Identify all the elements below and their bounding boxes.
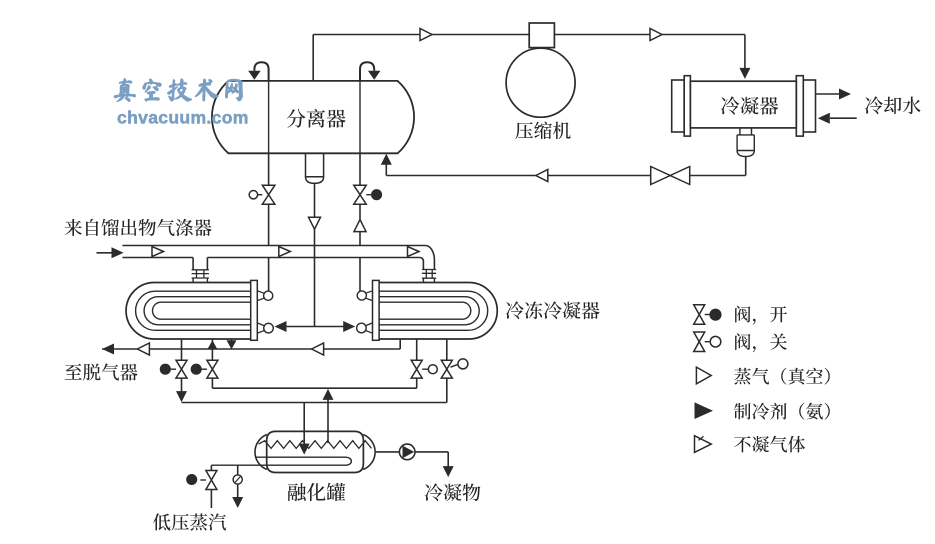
line B liquid header [182, 402, 447, 404]
valve left drop 2 [207, 360, 218, 378]
valve left under separator [262, 185, 275, 204]
feed inlet arrow [112, 247, 124, 258]
gooseneck left arrow into separator [248, 71, 261, 80]
steam riser upper [210, 465, 212, 470]
arrow into condenser top [739, 68, 750, 79]
condensate arrow down [443, 466, 454, 477]
right lower nozzle circle [357, 323, 367, 333]
arrow up into line C [323, 389, 334, 400]
valve stem [258, 194, 263, 196]
label melt tank [288, 483, 346, 501]
label condenser [721, 96, 778, 114]
left upper nozzle circle [264, 291, 273, 300]
gooseneck right arrow into separator [368, 71, 381, 80]
legend label noncondensable gas [734, 436, 805, 453]
valve stem [200, 479, 206, 481]
legend open circle [710, 336, 721, 347]
valve solid circle left 1 [161, 364, 171, 374]
label freezing condenser [506, 301, 600, 319]
feed drop left wall b2 [206, 278, 208, 283]
legend label steam vacuum [734, 368, 830, 385]
riser line C [416, 378, 418, 388]
flow arrow steam to compressor [420, 29, 432, 41]
left drop 1 lower [181, 378, 183, 392]
compressor body 压缩机 [529, 23, 554, 48]
label feed from scrubber [65, 219, 212, 236]
flow arrow to degasser 1 [137, 343, 149, 355]
valve right drop 1 [411, 360, 422, 378]
valve right under separator [354, 185, 367, 204]
drain branch lower [237, 484, 239, 497]
label separator [287, 109, 346, 128]
arrow up into left condenser [207, 340, 217, 349]
right condenser header plate [373, 280, 380, 340]
riser line A to right condenser [399, 339, 401, 349]
flow arrow to degasser 2 [312, 343, 324, 355]
right upper nozzle [366, 291, 373, 301]
flow arrow in feed pipe 1 [152, 247, 164, 257]
flanged joint right [422, 270, 436, 279]
gooseneck hook left [254, 62, 268, 81]
melt tank outlet line [376, 451, 399, 453]
right upper nozzle circle [357, 291, 366, 300]
pipe separator top outlet riser [312, 35, 314, 81]
condensate line right [415, 451, 448, 453]
valve stem [422, 368, 428, 370]
refrigerant line between condensers [285, 326, 345, 328]
cooling water inlet line [830, 117, 857, 119]
right lower nozzle [366, 323, 373, 333]
left condenser U-tube 3 [153, 302, 251, 319]
pump triangle [403, 446, 415, 459]
pipe condensate return left part [386, 175, 650, 177]
pipe right separator drop lower [359, 204, 361, 245]
flow arrow in feed pipe 3 [408, 247, 420, 257]
pipe down into melt tank [303, 403, 305, 444]
left lower nozzle [257, 323, 264, 333]
legend label valve closed [735, 333, 787, 352]
left drop 2 upper [211, 339, 213, 360]
feed drop left wall a2 [192, 278, 194, 283]
line to degasser [102, 348, 400, 350]
pipe up from melt tank [327, 399, 329, 443]
drain instrument circle [233, 475, 242, 484]
valve solid circle [372, 190, 382, 200]
valve open circle right 1 [428, 365, 437, 374]
feed drop left wall b [206, 258, 208, 270]
arrow to degasser [102, 344, 114, 355]
legend filled triangle refrigerant [695, 402, 714, 419]
refrigerant arrow into left condenser [275, 321, 287, 332]
left drop 1 upper [181, 339, 183, 360]
cooling water outlet arrow [839, 89, 851, 100]
valve left drop 1 [176, 360, 187, 378]
label cooling water [865, 96, 921, 114]
arrow into separator bottom [381, 154, 392, 165]
pump circle [399, 444, 415, 460]
condensate drop [447, 452, 449, 467]
riser line B [446, 378, 448, 402]
valve condensate return [651, 167, 690, 185]
compressor circle [506, 48, 575, 117]
flow arrow condensate return [536, 170, 548, 182]
line C suction header [212, 387, 416, 389]
legend label valve open [735, 306, 787, 325]
label low pressure steam [153, 513, 226, 530]
pipe condenser outlet drop [745, 157, 747, 176]
valve stem [202, 368, 208, 370]
gooseneck hook right [360, 62, 374, 81]
svg-text:chvacuum.com: chvacuum.com [117, 108, 249, 128]
legend label refrigerant ammonia [734, 403, 830, 420]
legend valve stem 2 [705, 341, 710, 343]
drain arrow down [232, 497, 243, 508]
label condensate [425, 483, 481, 501]
legend open triangle noncondensable [695, 436, 712, 453]
right drop 2 upper [446, 339, 448, 360]
steam riser lower [210, 490, 212, 509]
melt tank liquid zigzag [259, 441, 372, 449]
right freezing condenser shell [378, 283, 497, 340]
pipe to left condenser top [268, 258, 270, 292]
condenser left end cap [672, 80, 685, 132]
melt tank vessel 融化罐 [267, 431, 364, 472]
left condenser header plate [251, 280, 258, 340]
pipe to right condenser top [359, 258, 361, 292]
pipe left through separator [268, 81, 270, 153]
flow arrow in feed pipe 2 [279, 247, 291, 257]
melt tank left dished head [255, 435, 267, 470]
feed drop left wall a [192, 258, 194, 270]
left freezing condenser shell [126, 283, 251, 340]
flow arrow up right drop [354, 220, 366, 232]
pipe return riser into separator [385, 164, 387, 176]
valve low pressure steam [206, 471, 217, 490]
melt tank heating U-tube and steam line [211, 457, 351, 465]
pipe left separator drop lower [268, 204, 270, 245]
legend triangle inner tick [699, 436, 704, 440]
feed drop right wall b2 [433, 278, 435, 282]
feed pipe top wall [122, 245, 425, 247]
label compressor [515, 122, 570, 140]
pipe compressor to condenser [554, 34, 745, 36]
valve stem diagonal [451, 364, 459, 367]
left upper nozzle [257, 291, 264, 301]
feed pipe bottom wall right [207, 257, 420, 259]
legend valve closed symbol [694, 332, 705, 352]
separator vessel 分离器 [212, 81, 414, 153]
right condenser U-tube 2 [378, 297, 479, 325]
pipe separator drain down to refrigerant line [314, 246, 316, 327]
left stub to line A [231, 339, 233, 342]
feed elbow inner [420, 258, 424, 270]
feed inlet line [97, 252, 114, 254]
legend valve stem [705, 314, 710, 316]
pipe drop into condenser [744, 35, 746, 70]
valve stem [171, 368, 176, 370]
refrigerant arrow into right condenser [343, 321, 355, 332]
right condenser U-tube 3 [378, 302, 471, 319]
instrument slash [235, 476, 241, 483]
flanged joint left [192, 270, 209, 278]
separator bottom outlet pot [306, 153, 324, 183]
cooling water inlet arrow [818, 113, 830, 124]
pipe separator outlet down [314, 183, 316, 245]
condenser left flange plate [684, 76, 690, 136]
legend solid circle [710, 309, 721, 320]
left drop 2 lower [211, 378, 213, 388]
condenser right end cap [803, 80, 815, 132]
valve right drop 2 [441, 360, 452, 378]
left condenser U-tube 1 [136, 291, 251, 330]
valve stem [366, 194, 372, 196]
arrow down into line A [227, 340, 237, 349]
label to degasser [65, 363, 138, 380]
feed pipe bottom wall left [122, 257, 193, 259]
pipe right separator drop upper [359, 153, 361, 185]
valve solid circle left 2 [191, 364, 201, 374]
left condenser U-tube 2 [144, 297, 251, 325]
right drop 1 upper [416, 339, 418, 360]
cooling water outlet line [816, 93, 841, 95]
watermark chinese [114, 78, 243, 101]
left lower nozzle circle [264, 323, 274, 333]
legend open triangle steam [696, 367, 711, 384]
condenser right flange plate [796, 76, 803, 136]
flow arrow down separator outlet [309, 217, 321, 229]
feed drop right wall a2 [422, 278, 424, 282]
arrow down to line B [176, 391, 187, 402]
valve handwheel open circle [249, 191, 257, 199]
legend valve open symbol [694, 305, 705, 325]
drain branch upper [237, 465, 239, 475]
flow arrow compressor to condenser [650, 29, 662, 41]
condenser shell 冷凝器 [690, 81, 796, 128]
pipe condensate return right part [690, 175, 746, 177]
pipe left separator drop upper [268, 153, 270, 185]
arrow down inside melt tank [299, 444, 310, 455]
valve open circle right 2 [458, 359, 468, 369]
melt tank right dished head [363, 435, 375, 470]
condenser bottom outlet pot [737, 128, 754, 157]
pipe right through separator [359, 81, 361, 153]
feed elbow outer [425, 246, 434, 270]
right condenser U-tube 1 [378, 291, 487, 330]
valve solid circle steam [187, 475, 197, 485]
pipe separator to compressor [313, 34, 529, 36]
